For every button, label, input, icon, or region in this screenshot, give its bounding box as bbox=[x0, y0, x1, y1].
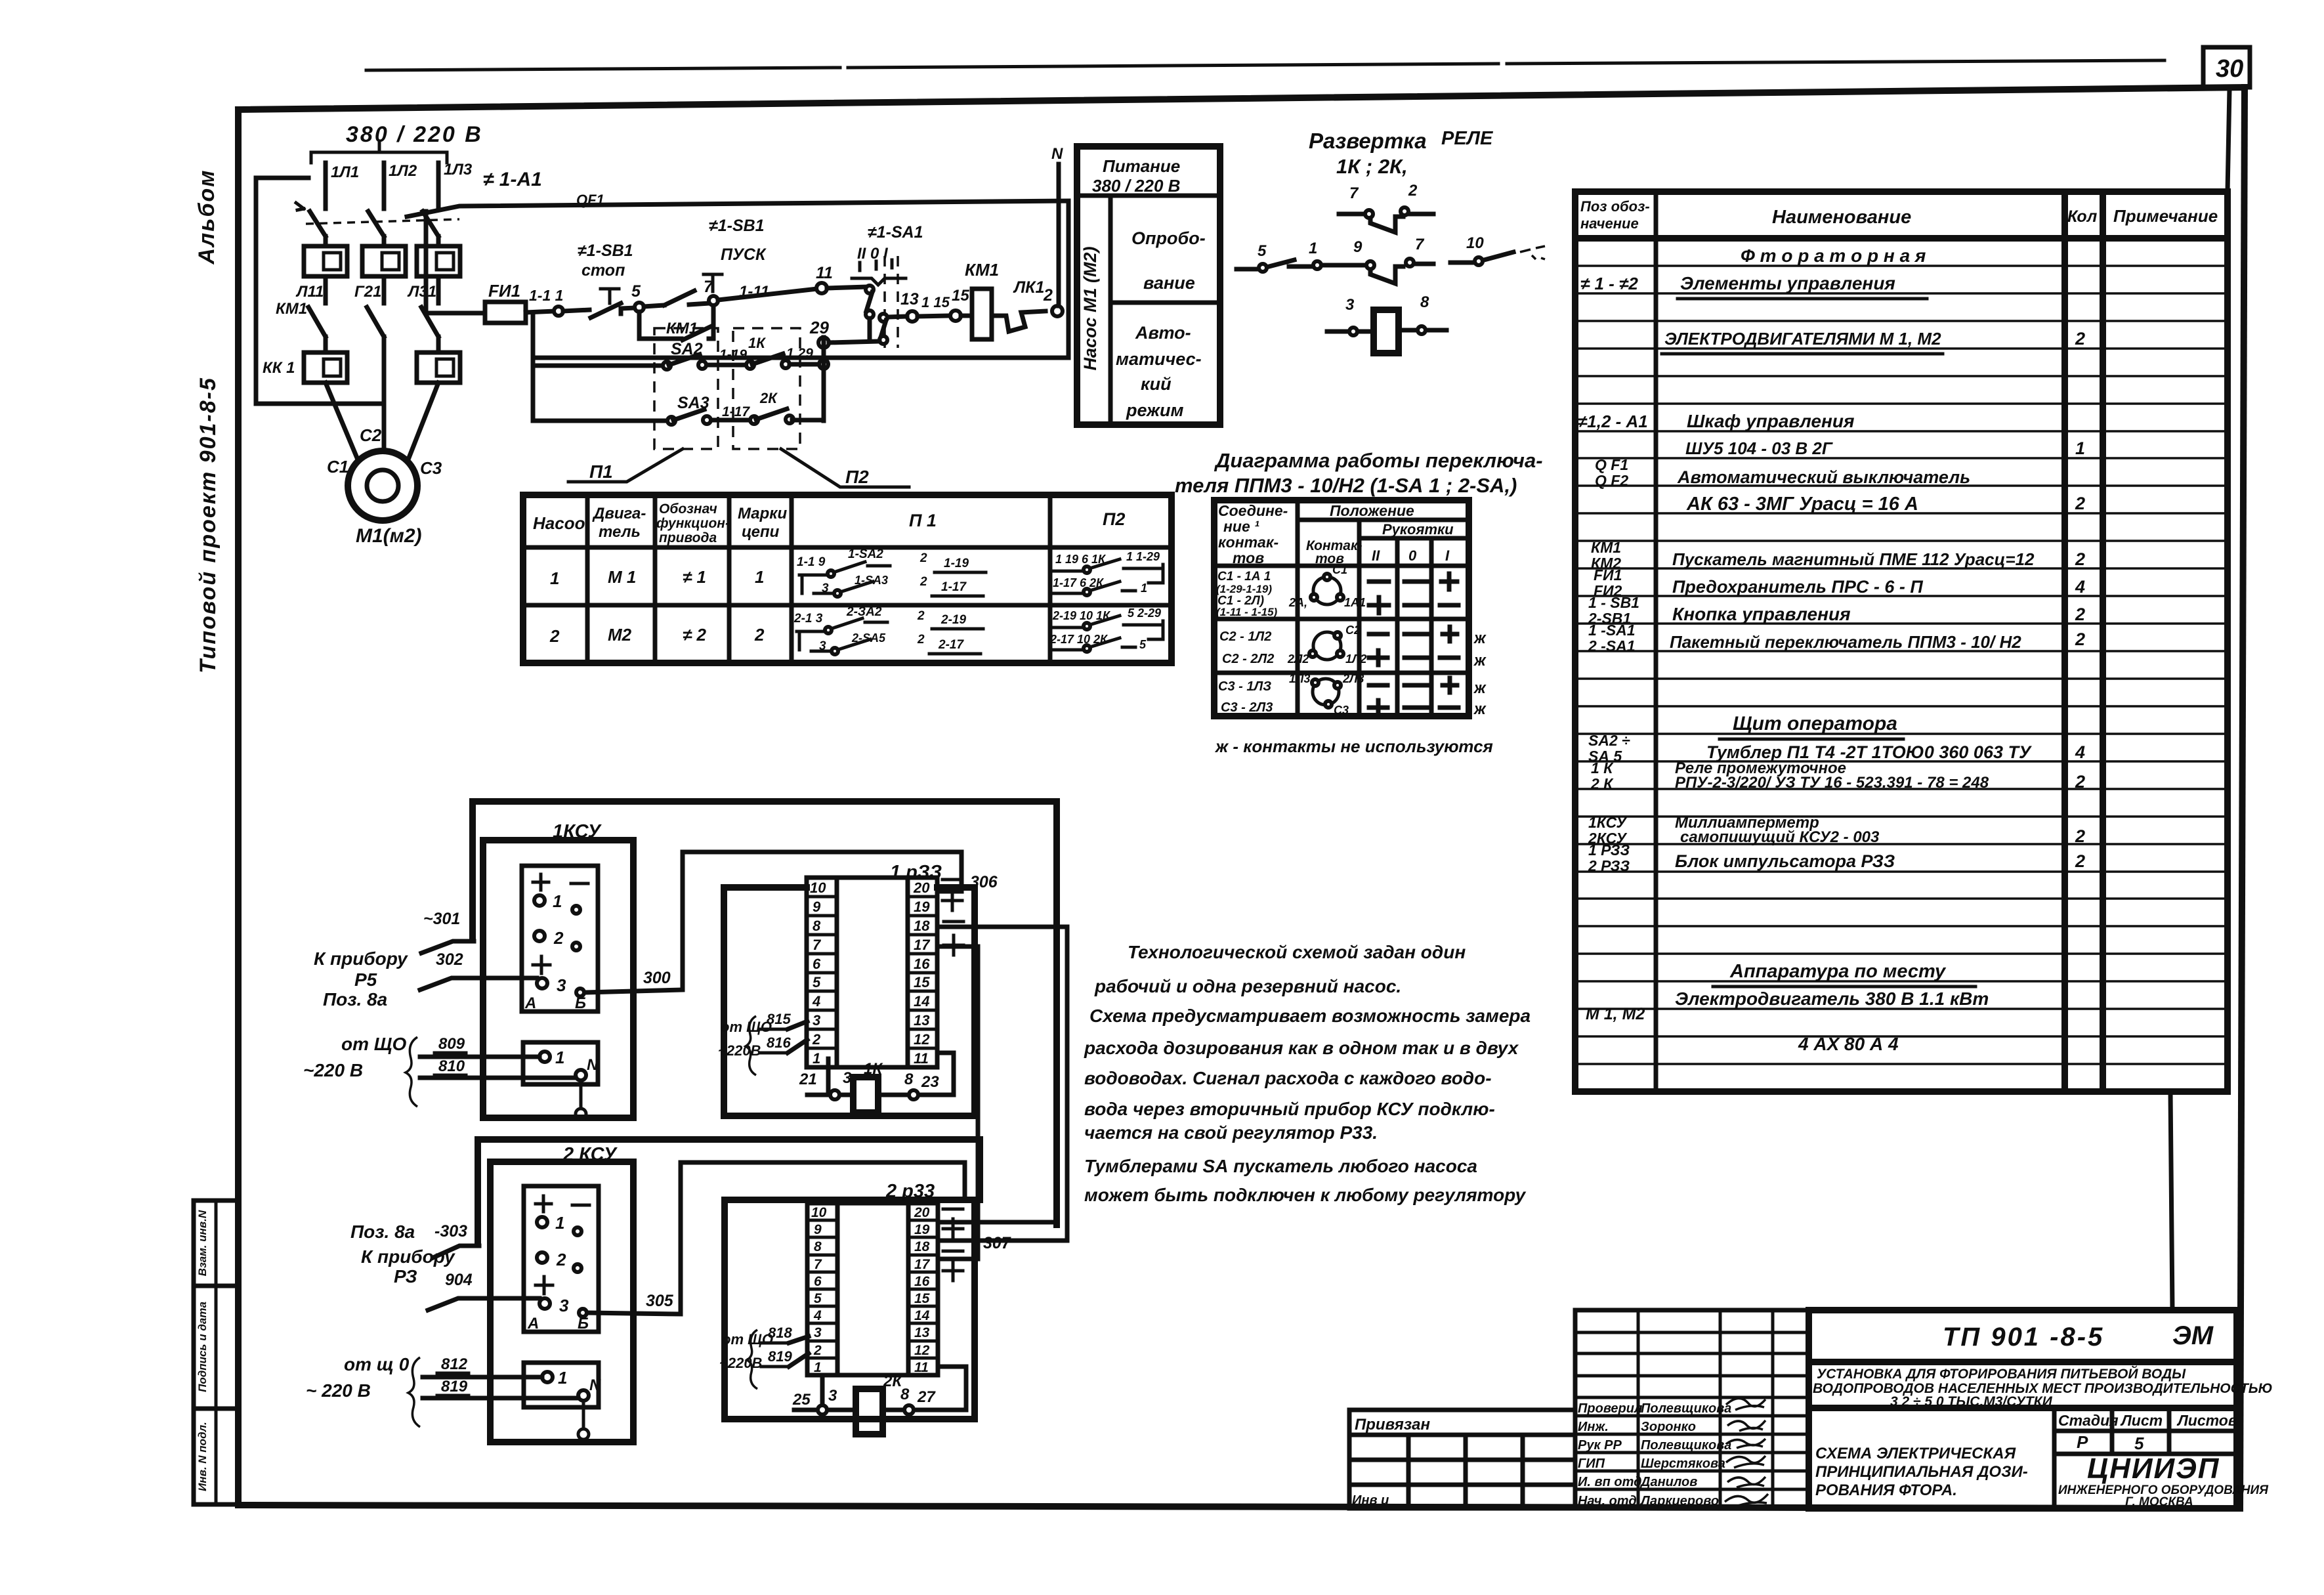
svg-text:2: 2 bbox=[2075, 494, 2085, 513]
svg-text:матичес-: матичес- bbox=[1116, 349, 1202, 369]
svg-text:Двига-: Двига- bbox=[592, 505, 646, 522]
parts row apparatura po mestu bbox=[1713, 961, 1975, 987]
caption ot ShchO 220V (2) bbox=[306, 1354, 410, 1401]
dashed enclosure P2 bbox=[733, 328, 800, 449]
svg-text:8: 8 bbox=[813, 918, 821, 934]
svg-text:2: 2 bbox=[812, 1031, 821, 1048]
svg-text:3: 3 bbox=[1345, 296, 1355, 314]
svg-text:1Л2: 1Л2 bbox=[1345, 652, 1366, 666]
wire rail1 top loop bbox=[473, 801, 1057, 1225]
svg-text:привода: привода bbox=[659, 530, 717, 545]
svg-text:П1: П1 bbox=[589, 461, 613, 482]
svg-text:2Л2: 2Л2 bbox=[1287, 652, 1309, 666]
svg-text:≠1-SA1: ≠1-SA1 bbox=[868, 223, 923, 242]
svg-text:1 К: 1 К bbox=[1591, 759, 1614, 776]
svg-text:Элементы управления: Элементы управления bbox=[1680, 273, 1895, 293]
svg-text:Шкаф управления: Шкаф управления bbox=[1687, 411, 1854, 431]
svg-text:19: 19 bbox=[914, 1222, 930, 1237]
wire branch SA2/1K bbox=[534, 364, 667, 368]
svg-text:N: N bbox=[587, 1056, 599, 1074]
svg-text:Л31: Л31 bbox=[407, 283, 436, 301]
svg-text:СХЕМА ЭЛЕКТРИЧЕСКАЯ: СХЕМА ЭЛЕКТРИЧЕСКАЯ bbox=[1815, 1445, 2016, 1462]
svg-text:расхода дозирования как в: расхода дозирования как в одном так и в … bbox=[1084, 1038, 1519, 1058]
svg-text:Г. МОСКВА: Г. МОСКВА bbox=[2125, 1495, 2193, 1509]
wire 1-29 to node bbox=[786, 346, 824, 364]
svg-text:от ЩО: от ЩО bbox=[341, 1034, 406, 1054]
svg-text:1К: 1К bbox=[748, 335, 766, 351]
svg-text:4: 4 bbox=[812, 993, 820, 1010]
svg-text:3 2 ÷ 5 0 ТЫС.М3/СУТКИ: 3 2 ÷ 5 0 ТЫС.М3/СУТКИ bbox=[1890, 1394, 2053, 1409]
parts row M1 M2 dvigatel bbox=[1586, 989, 1989, 1023]
vertical link from table to title block bbox=[2170, 1092, 2172, 1310]
svg-text:8: 8 bbox=[904, 1071, 914, 1088]
wires 818 819 into 2REZ bbox=[719, 1325, 809, 1389]
parts table headers bbox=[1580, 198, 2218, 232]
svg-text:1: 1 bbox=[755, 567, 764, 587]
wires 809 810 from shield bbox=[406, 1035, 576, 1107]
svg-text:П 1: П 1 bbox=[909, 511, 937, 530]
node 5 bbox=[631, 282, 644, 312]
svg-text:2-19: 2-19 bbox=[940, 613, 966, 627]
svg-text:Зоронко: Зоронко bbox=[1641, 1420, 1696, 1434]
row2 P1 mini-diagram bbox=[793, 605, 983, 654]
parts row FU1 FU2 bbox=[1594, 566, 2085, 599]
svg-text:15: 15 bbox=[952, 287, 969, 305]
wires 812 819 from shield bbox=[408, 1355, 578, 1427]
svg-text:1: 1 bbox=[555, 1048, 564, 1067]
wire stub ~301 bbox=[421, 910, 474, 953]
svg-text:Обознач: Обознач bbox=[659, 501, 717, 517]
parts row shu5104 bbox=[1685, 438, 2085, 458]
svg-text:Питание: Питание bbox=[1103, 156, 1180, 176]
table row C3 bbox=[1218, 672, 1487, 718]
svg-text:N: N bbox=[589, 1376, 601, 1394]
svg-text:1 1-29: 1 1-29 bbox=[1126, 550, 1160, 563]
relay 2K in 2REZ bbox=[792, 1367, 966, 1434]
junction on branch1 bbox=[819, 360, 828, 369]
svg-text:2 -SА1: 2 -SА1 bbox=[1588, 637, 1636, 654]
svg-text:РЕЛЕ: РЕЛЕ bbox=[1441, 128, 1494, 149]
svg-text:ж: ж bbox=[1473, 652, 1487, 670]
svg-text:2: 2 bbox=[1043, 286, 1053, 305]
svg-text:14: 14 bbox=[914, 993, 929, 1010]
svg-text:Тумблерами SА пускатель л: Тумблерами SА пускатель любого насоса bbox=[1084, 1156, 1477, 1176]
1KSU meter inner box bbox=[522, 866, 598, 1012]
svg-text:302: 302 bbox=[436, 950, 463, 969]
svg-text:3: 3 bbox=[828, 1387, 837, 1405]
1KSU terminal sub-box bbox=[523, 1042, 599, 1084]
svg-text:Л11: Л11 bbox=[295, 283, 324, 301]
svg-text:УСТАНОВКА ДЛЯ ФТОРИРОВАНИЯ: УСТАНОВКА ДЛЯ ФТОРИРОВАНИЯ ПИТЬЕВОЙ ВОДЫ bbox=[1817, 1366, 2186, 1382]
svg-text:ТП 901 -8-5: ТП 901 -8-5 bbox=[1943, 1323, 2104, 1351]
svg-text:18: 18 bbox=[914, 918, 930, 934]
pushbutton 1-SB1 pusk bbox=[644, 217, 767, 307]
svg-text:≠1,2 - А1: ≠1,2 - А1 bbox=[1578, 412, 1648, 431]
breaker release boxes (3) bbox=[304, 246, 347, 276]
svg-text:Взам. инв.N: Взам. инв.N bbox=[196, 1210, 209, 1276]
svg-text:1-SА2: 1-SА2 bbox=[848, 547, 883, 561]
svg-text:≠ 1 - ≠2: ≠ 1 - ≠2 bbox=[1580, 274, 1638, 293]
svg-text:5: 5 bbox=[813, 974, 821, 990]
svg-text:Стадия: Стадия bbox=[2058, 1412, 2119, 1429]
svg-text:4: 4 bbox=[2075, 577, 2085, 597]
svg-text:ПРИНЦИПИАЛЬНАЯ ДОЗИ-: ПРИНЦИПИАЛЬНАЯ ДОЗИ- bbox=[1815, 1463, 2028, 1481]
parts row REZ blok bbox=[1588, 841, 2085, 874]
svg-text:от щ 0: от щ 0 bbox=[344, 1354, 410, 1374]
svg-text:10: 10 bbox=[810, 880, 826, 896]
svg-text:1Л1: 1Л1 bbox=[331, 163, 359, 181]
svg-text:380 / 220 В: 380 / 220 В bbox=[346, 122, 483, 147]
left bypass wire rectangle bbox=[256, 178, 384, 404]
svg-text:Инж.: Инж. bbox=[1578, 1420, 1609, 1434]
svg-text:Авто-: Авто- bbox=[1135, 323, 1191, 343]
svg-text:ж: ж bbox=[1473, 629, 1487, 647]
svg-text:цепи: цепи bbox=[742, 523, 780, 541]
svg-text:2: 2 bbox=[553, 928, 564, 948]
svg-text:20: 20 bbox=[913, 880, 930, 896]
svg-text:С3 - 2Л3: С3 - 2Л3 bbox=[1221, 700, 1273, 715]
2REZ terminal strip bbox=[807, 1203, 938, 1375]
relay changeover contact 7-2 bbox=[1339, 182, 1433, 232]
wire node11 to switch 1-SA1 bbox=[827, 287, 868, 288]
svg-text:Технологической схемой за: Технологической схемой задан один bbox=[1128, 942, 1466, 962]
svg-text:11: 11 bbox=[816, 264, 833, 282]
svg-text:≠ 2: ≠ 2 bbox=[683, 625, 706, 645]
svg-text:17: 17 bbox=[914, 937, 931, 953]
switch SA2 bbox=[663, 340, 723, 370]
svg-text:12: 12 bbox=[914, 1343, 930, 1358]
svg-text:Поз обоз-: Поз обоз- bbox=[1580, 198, 1650, 215]
svg-text:904: 904 bbox=[445, 1271, 473, 1289]
svg-text:1: 1 bbox=[2075, 438, 2085, 458]
svg-text:1 РЗЗ: 1 РЗЗ bbox=[1588, 841, 1630, 859]
svg-text:1А1: 1А1 bbox=[1344, 596, 1366, 609]
svg-text:А: А bbox=[527, 1315, 539, 1332]
svg-text:Примечание: Примечание bbox=[2113, 206, 2218, 226]
svg-text:Ф т о р а т о р н а я: Ф т о р а т о р н а я bbox=[1741, 245, 1926, 266]
svg-text:Листов: Листов bbox=[2176, 1412, 2237, 1429]
relay coil symbol with pins 3 and 8 bbox=[1327, 293, 1447, 353]
svg-text:2: 2 bbox=[754, 625, 765, 645]
svg-text:С3: С3 bbox=[420, 458, 442, 478]
svg-text:(1-11 - 1-15): (1-11 - 1-15) bbox=[1216, 606, 1278, 618]
wire KM to KK heaters bbox=[326, 337, 438, 352]
wire 302 to pin3 bbox=[420, 950, 537, 990]
svg-text:функцион-: функцион- bbox=[656, 516, 730, 531]
svg-text:2 р33: 2 р33 bbox=[885, 1181, 935, 1202]
svg-text:9: 9 bbox=[814, 1222, 822, 1237]
pushbutton 1-SB1 stop bbox=[578, 242, 633, 318]
svg-text:ПУСК: ПУСК bbox=[721, 245, 767, 264]
stage sheet cells bbox=[2054, 1408, 2237, 1508]
1REZ outputs 306 bbox=[940, 873, 998, 910]
svg-text:4 АХ 80 А 4: 4 АХ 80 А 4 bbox=[1798, 1034, 1899, 1054]
svg-text:теля ППМ3 - 10/Н2 (1-SА 1 ;: теля ППМ3 - 10/Н2 (1-SА 1 ; 2-SА,) bbox=[1175, 474, 1517, 497]
svg-text:2 РЗЗ: 2 РЗЗ bbox=[1588, 857, 1630, 874]
svg-text:4: 4 bbox=[813, 1308, 822, 1323]
wire rail2 second loop bbox=[478, 1139, 980, 1244]
svg-text:Р: Р bbox=[2077, 1432, 2088, 1452]
svg-text:1 15: 1 15 bbox=[921, 294, 950, 310]
svg-text:3: 3 bbox=[813, 1012, 820, 1029]
svg-text:1-19: 1-19 bbox=[944, 557, 969, 570]
svg-text:Данилов: Данилов bbox=[1639, 1475, 1697, 1489]
switch position table bbox=[1214, 500, 1469, 716]
svg-text:10: 10 bbox=[1466, 234, 1484, 252]
object title text bbox=[1813, 1366, 2273, 1409]
row1 P1 mini-diagram bbox=[797, 547, 986, 597]
svg-text:Б: Б bbox=[575, 994, 586, 1012]
svg-text:2: 2 bbox=[1408, 182, 1418, 200]
svg-text:Нач. отд: Нач. отд bbox=[1578, 1494, 1637, 1508]
drawing name bbox=[1815, 1445, 2028, 1499]
wire 1-17 bbox=[722, 404, 752, 420]
svg-text:Кнопка управления: Кнопка управления bbox=[1672, 604, 1851, 624]
1REZ outputs pair2 bbox=[940, 922, 1067, 955]
svg-text:тель: тель bbox=[599, 523, 641, 541]
svg-text:Насос М1 (М2): Насос М1 (М2) bbox=[1080, 246, 1100, 370]
svg-text:9: 9 bbox=[1353, 238, 1363, 256]
sheet number box 30 bbox=[2203, 47, 2250, 87]
svg-text:1: 1 bbox=[558, 1368, 567, 1388]
svg-text:~220 В: ~220 В bbox=[303, 1060, 363, 1080]
relay contact 1K bbox=[746, 335, 790, 369]
svg-text:от ЩО: от ЩО bbox=[721, 1019, 772, 1035]
svg-text:2: 2 bbox=[813, 1343, 822, 1358]
svg-text:2 К: 2 К bbox=[1590, 775, 1614, 792]
middle phase wire through bbox=[382, 352, 387, 452]
svg-text:~ 220 В: ~ 220 В bbox=[306, 1380, 371, 1401]
svg-text:Q F1: Q F1 bbox=[1595, 456, 1628, 473]
svg-text:1К ; 2К,: 1К ; 2К, bbox=[1336, 155, 1408, 178]
svg-text:тов: тов bbox=[1233, 549, 1264, 566]
svg-text:2-1 3: 2-1 3 bbox=[793, 612, 823, 626]
svg-text:819: 819 bbox=[768, 1348, 792, 1365]
ground at 2KSU bbox=[578, 1401, 589, 1439]
svg-text:FИ1: FИ1 bbox=[488, 281, 520, 301]
labels L11 L21 L31 bbox=[295, 283, 436, 301]
svg-text:РЗ: РЗ bbox=[394, 1266, 417, 1287]
svg-text:7: 7 bbox=[1349, 184, 1359, 202]
parts list table grid bbox=[1575, 89, 2229, 1092]
svg-text:I: I bbox=[1445, 547, 1450, 564]
svg-text:15: 15 bbox=[914, 1291, 930, 1306]
svg-text:6: 6 bbox=[814, 1274, 822, 1289]
wire branch SA3/2K bbox=[534, 419, 671, 423]
svg-text:Опробо-: Опробо- bbox=[1131, 228, 1206, 248]
relay contact 1 bbox=[1289, 240, 1338, 269]
title razvertka rele 1K 2K bbox=[1309, 128, 1494, 178]
svg-text:N: N bbox=[1051, 145, 1063, 163]
svg-text:РПУ-2-3/220/ УЗ ТУ 16 - 523: РПУ-2-3/220/ УЗ ТУ 16 - 523.391 - 78 = 2… bbox=[1675, 774, 1989, 792]
svg-text:6: 6 bbox=[813, 956, 821, 972]
svg-text:Типовой проект 901-8-5: Типовой проект 901-8-5 bbox=[196, 377, 221, 673]
svg-text:2: 2 bbox=[2075, 851, 2085, 871]
svg-text:818: 818 bbox=[768, 1325, 792, 1341]
svg-text:15: 15 bbox=[914, 974, 930, 990]
svg-text:27: 27 bbox=[917, 1388, 936, 1406]
parts row ftoratornaja bbox=[1741, 245, 1926, 266]
svg-text:≠1-SB1: ≠1-SB1 bbox=[578, 242, 633, 260]
wire to node 5 bbox=[621, 308, 635, 308]
svg-text:Предохранитель ПРС - 6 -: Предохранитель ПРС - 6 - П bbox=[1672, 577, 1923, 597]
svg-text:2: 2 bbox=[2075, 605, 2085, 624]
svg-text:Аппаратура по месту: Аппаратура по месту bbox=[1729, 961, 1947, 982]
contactor KM1 holding contact loop bbox=[639, 302, 713, 340]
svg-text:Блок импульсатора РЗЗ: Блок импульсатора РЗЗ bbox=[1675, 851, 1895, 871]
svg-text:SА2 ÷: SА2 ÷ bbox=[1588, 732, 1630, 749]
svg-text:7: 7 bbox=[704, 278, 713, 296]
svg-text:Рук РР: Рук РР bbox=[1578, 1438, 1622, 1453]
svg-text:ШУ5 104 - 03 В 2Г: ШУ5 104 - 03 В 2Г bbox=[1685, 438, 1833, 458]
dashed enclosure P1 bbox=[654, 328, 718, 449]
svg-text:380 / 220 В: 380 / 220 В bbox=[1092, 176, 1180, 196]
svg-text:Привязан: Привязан bbox=[1355, 1416, 1430, 1434]
2KSU terminal sub-box bbox=[524, 1363, 601, 1407]
wires 815 816 into 1REZ bbox=[718, 1011, 807, 1075]
top margin line bbox=[366, 60, 2165, 70]
svg-text:II: II bbox=[1372, 547, 1380, 564]
svg-text:1-1 1: 1-1 1 bbox=[529, 287, 563, 304]
svg-text:20: 20 bbox=[914, 1205, 930, 1220]
svg-text:П2: П2 bbox=[845, 467, 869, 487]
svg-text:11: 11 bbox=[914, 1360, 929, 1375]
svg-text:С1 - 1А 1: С1 - 1А 1 bbox=[1217, 570, 1271, 584]
svg-text:13: 13 bbox=[914, 1325, 930, 1340]
pump/motor table bbox=[523, 495, 1172, 663]
wire 1-11 bbox=[718, 283, 817, 301]
svg-text:FИ1: FИ1 bbox=[1594, 566, 1622, 584]
parts row 1K 2K rele bbox=[1590, 759, 2085, 792]
contactor coil KM1 bbox=[961, 260, 999, 339]
parts row SA1 bbox=[1588, 622, 2085, 654]
svg-text:16: 16 bbox=[914, 956, 930, 972]
contactor KM1 main contacts bbox=[276, 300, 438, 337]
title block left attachment table bbox=[1349, 1410, 1575, 1508]
svg-text:КМ1: КМ1 bbox=[1591, 539, 1621, 556]
svg-text:0: 0 bbox=[1408, 547, 1417, 564]
svg-text:1: 1 bbox=[550, 568, 559, 588]
svg-text:рабочий и одна резервни: рабочий и одна резервний насос. bbox=[1094, 976, 1401, 996]
svg-text:1 19 6 1К: 1 19 6 1К bbox=[1055, 553, 1107, 566]
svg-text:≠ 1: ≠ 1 bbox=[683, 567, 706, 587]
svg-text:контак-: контак- bbox=[1218, 534, 1278, 551]
svg-text:Схема предусматривает возмо: Схема предусматривает возможность замера bbox=[1089, 1006, 1531, 1026]
svg-text:2: 2 bbox=[2075, 549, 2085, 569]
svg-text:К прибору: К прибору bbox=[361, 1246, 455, 1267]
wire QF to release boxes bbox=[326, 236, 438, 246]
svg-text:Соедине-: Соедине- bbox=[1218, 502, 1288, 519]
svg-text:К прибору: К прибору bbox=[314, 948, 408, 969]
node 11 bbox=[816, 264, 833, 293]
parts row shchit operatora bbox=[1720, 713, 1903, 739]
svg-text:10: 10 bbox=[811, 1205, 827, 1220]
left bottom stamp boxes bbox=[194, 1201, 238, 1504]
svg-text:21: 21 bbox=[799, 1071, 817, 1088]
svg-text:Рукоятки: Рукоятки bbox=[1382, 521, 1454, 538]
svg-text:809: 809 bbox=[438, 1035, 465, 1053]
ground at 1KSU bbox=[576, 1080, 586, 1119]
svg-text:ние ¹: ние ¹ bbox=[1223, 518, 1259, 535]
svg-text:ГИП: ГИП bbox=[1578, 1457, 1605, 1471]
row2 P2 mini-diagram bbox=[1049, 606, 1163, 652]
svg-text:2: 2 bbox=[556, 1250, 566, 1269]
device 1KSU box bbox=[483, 821, 633, 1118]
svg-text:1-17: 1-17 bbox=[722, 404, 750, 419]
svg-text:3: 3 bbox=[557, 975, 566, 995]
svg-text:≠1-SB1: ≠1-SB1 bbox=[709, 217, 765, 235]
motor M1(M2) bbox=[327, 425, 442, 547]
caption Poz 8a / k priboru RZ bbox=[350, 1222, 455, 1287]
svg-text:1: 1 bbox=[1309, 240, 1317, 257]
svg-text:кий: кий bbox=[1141, 374, 1172, 394]
svg-text:300: 300 bbox=[643, 969, 671, 987]
svg-text:2: 2 bbox=[917, 609, 925, 623]
parts row KM1 KM2 bbox=[1591, 539, 2085, 572]
block 2REZ outer box bbox=[725, 1181, 975, 1419]
parts row SB1 bbox=[1588, 594, 2085, 627]
svg-text:Наименование: Наименование bbox=[1772, 207, 1911, 228]
wire 1-19 bbox=[719, 347, 748, 365]
svg-text:25: 25 bbox=[792, 1391, 811, 1409]
svg-text:5: 5 bbox=[1139, 638, 1147, 651]
svg-text:2: 2 bbox=[549, 626, 560, 646]
svg-text:8: 8 bbox=[814, 1239, 822, 1254]
label 380/220V bbox=[346, 122, 483, 147]
svg-text:819: 819 bbox=[441, 1378, 468, 1395]
svg-text:2: 2 bbox=[2075, 329, 2085, 349]
title block main bbox=[1809, 1310, 2237, 1508]
relay contact 2K bbox=[750, 390, 824, 424]
svg-text:2: 2 bbox=[919, 575, 927, 589]
wire 305 from B to 2REZ bbox=[588, 1162, 965, 1314]
svg-text:Поз. 8а: Поз. 8а bbox=[323, 989, 387, 1010]
svg-text:1 - SВ1: 1 - SВ1 bbox=[1588, 594, 1639, 611]
svg-text:водоводах. Сигнал расхода с: водоводах. Сигнал расхода с каждого водо… bbox=[1084, 1068, 1492, 1088]
svg-text:может быть подключен к: может быть подключен к любому регулятору bbox=[1084, 1185, 1527, 1205]
svg-text:14: 14 bbox=[914, 1308, 930, 1323]
relay contact 5 bbox=[1236, 242, 1294, 272]
svg-text:29: 29 bbox=[809, 318, 829, 337]
svg-text:С3 - 1ЛЗ: С3 - 1ЛЗ bbox=[1218, 679, 1271, 694]
node 15 bbox=[950, 287, 969, 321]
fuse FU1 bbox=[428, 281, 526, 323]
svg-text:Полевщикова: Полевщикова bbox=[1641, 1401, 1731, 1416]
svg-text:начение: начение bbox=[1580, 215, 1639, 232]
svg-text:5: 5 bbox=[814, 1291, 822, 1306]
svg-text:Марки: Марки bbox=[738, 505, 787, 522]
svg-text:1-1 9: 1-1 9 bbox=[797, 555, 826, 569]
wire tap vertical at x812 bbox=[531, 314, 536, 421]
wire 304 to pin3 bbox=[428, 1271, 539, 1310]
leader P2 bbox=[781, 449, 909, 487]
svg-text:Пакетный переключатель ПП: Пакетный переключатель ППМ3 - 10/ Н2 bbox=[1670, 632, 2021, 652]
svg-text:13: 13 bbox=[900, 290, 919, 308]
svg-text:С2: С2 bbox=[1345, 624, 1361, 637]
svg-text:Лист: Лист bbox=[2120, 1412, 2163, 1429]
svg-text:режим: режим bbox=[1126, 400, 1184, 420]
svg-text:М1(м2): М1(м2) bbox=[356, 525, 422, 547]
svg-text:С1: С1 bbox=[1332, 563, 1347, 576]
svg-text:Полевщикова: Полевщикова bbox=[1641, 1438, 1731, 1453]
parts row 1-2 elementy bbox=[1580, 273, 1927, 299]
svg-text:17: 17 bbox=[914, 1257, 931, 1272]
svg-text:2: 2 bbox=[2075, 629, 2085, 649]
svg-text:Шерстякова: Шерстякова bbox=[1641, 1457, 1725, 1471]
svg-text:Пускатель магнитный ПМЕ: Пускатель магнитный ПМЕ 112 Урасц=12 bbox=[1672, 549, 2035, 569]
svg-text:3: 3 bbox=[843, 1069, 852, 1087]
table row C2 bbox=[1219, 624, 1487, 670]
